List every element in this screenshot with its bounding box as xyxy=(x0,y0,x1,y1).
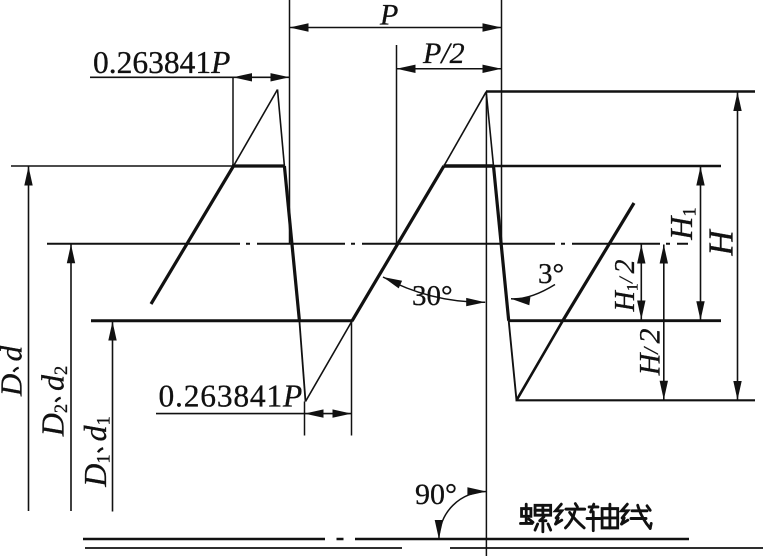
wire: major diameter top line xyxy=(486,90,755,93)
wire: tooth3 30deg flank thick xyxy=(563,203,634,321)
wire: tooth1 steep flank thin above crest xyxy=(278,90,285,167)
node: extension line mid 0.263841P left xyxy=(304,402,306,436)
wire: tooth1 steep flank thin below minor xyxy=(299,321,305,402)
wire: tooth1 30deg flank thin above crest xyxy=(234,90,278,167)
node: perpendicular axis reference line for 90deg xyxy=(485,92,487,556)
svg-text:1: 1 xyxy=(624,283,642,291)
label H/2 (rotated) xyxy=(634,329,667,377)
svg-text:/: / xyxy=(616,275,638,284)
svg-text:d: d xyxy=(77,425,113,442)
angle arc 90deg xyxy=(439,492,487,540)
label D2,d2 (rotated) xyxy=(35,366,73,437)
label H1/2 (rotated) xyxy=(610,260,642,313)
svg-text:3°: 3° xyxy=(538,258,564,290)
label D1,d1 (rotated) xyxy=(77,416,115,487)
svg-text:d: d xyxy=(35,374,71,391)
wire: tooth2 steep flank thin above crest xyxy=(486,92,493,166)
svg-text:2: 2 xyxy=(51,366,72,375)
label CJK char luo 螺 xyxy=(521,504,551,532)
svg-text:P/2: P/2 xyxy=(422,37,465,70)
node: extension line mid 0.263841P right xyxy=(351,321,353,436)
wire: bottom border line xyxy=(85,547,402,549)
wire: crest line right segment (H1 reference) xyxy=(444,165,722,168)
svg-text:90°: 90° xyxy=(415,478,457,511)
svg-text:D: D xyxy=(35,413,71,437)
node: extension line top 0.263841P left xyxy=(232,77,234,166)
node: extension line left of P at pitch line xyxy=(289,0,291,244)
svg-text:H: H xyxy=(610,289,641,312)
dimension H vertical xyxy=(737,92,739,400)
wire: tooth1 30deg flank thick xyxy=(151,166,234,304)
dimension D1,d1 vertical xyxy=(112,322,114,512)
leader arc 3deg xyxy=(511,285,555,299)
svg-text:1: 1 xyxy=(94,416,115,425)
svg-text:P: P xyxy=(379,0,398,32)
dimension P/2 xyxy=(397,68,502,70)
angle arc 30deg xyxy=(383,277,485,302)
wire: crest line left thin extension xyxy=(11,165,234,167)
wire: crest flat of tooth 1 xyxy=(232,164,284,167)
wire: root2 vee right thin xyxy=(517,321,563,401)
svg-text:D: D xyxy=(77,464,113,488)
svg-text:2: 2 xyxy=(51,404,72,413)
svg-text:0.263841P: 0.263841P xyxy=(159,379,304,414)
label CJK char wen 纹 xyxy=(556,504,585,528)
wire: minor diameter line right segment xyxy=(509,319,721,322)
wire: tooth1 steep flank thick xyxy=(284,166,299,321)
svg-text:30°: 30° xyxy=(412,280,453,312)
wire: root1 vee right thin xyxy=(306,321,353,402)
svg-text:D: D xyxy=(0,374,29,397)
svg-text:H: H xyxy=(634,351,667,376)
svg-text:2: 2 xyxy=(610,260,641,274)
wire: minor diameter line left segment xyxy=(91,319,353,322)
label CJK char zhou 轴 xyxy=(587,504,618,530)
node: extension line right of P xyxy=(501,0,503,244)
svg-text:/: / xyxy=(639,346,663,355)
wire: tooth2 30deg flank thin above crest xyxy=(444,92,486,166)
wire: tooth2 30deg flank thick xyxy=(352,166,444,321)
label CJK char xian 线 xyxy=(622,504,652,528)
dimension D,d vertical xyxy=(28,167,30,512)
node: thread axis line 螺纹轴线 (dash-dot) xyxy=(83,538,325,541)
svg-text:0.263841P: 0.263841P xyxy=(93,45,230,80)
wire: tooth2 steep flank thin below minor xyxy=(509,321,517,401)
wire: crest flat of tooth 2 xyxy=(444,164,494,167)
dimension P xyxy=(290,27,502,29)
label D,d (rotated) xyxy=(0,345,29,397)
wire: root line xyxy=(516,399,756,401)
svg-text:H: H xyxy=(663,215,699,241)
dimension H1/2 vertical xyxy=(640,245,642,320)
label H1 (rotated) xyxy=(663,207,701,240)
dimension H/2 vertical xyxy=(663,245,665,400)
svg-text:1: 1 xyxy=(94,454,115,463)
dimension D2,d2 vertical xyxy=(70,244,72,511)
svg-text:1: 1 xyxy=(680,207,701,216)
label H (rotated) xyxy=(701,229,740,257)
svg-text:d: d xyxy=(0,345,29,361)
dimension 0.263841P top with leader underline xyxy=(90,76,290,78)
svg-text:2: 2 xyxy=(634,329,667,344)
svg-text:H: H xyxy=(701,229,740,257)
dimension 0.263841P middle with leader underline xyxy=(156,413,352,415)
node: pitch centerline (dash-dot) xyxy=(47,243,688,245)
node: extension line for P/2 xyxy=(396,45,398,244)
wire: tooth2 steep flank thick xyxy=(494,166,509,321)
dimension H1 vertical xyxy=(700,167,702,321)
